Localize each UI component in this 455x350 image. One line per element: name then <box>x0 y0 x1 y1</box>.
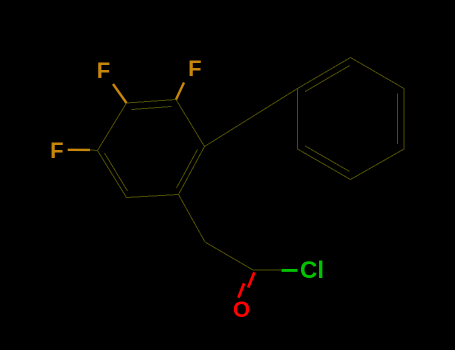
svg-text:Cl: Cl <box>300 257 324 284</box>
C=O double bond red <box>238 272 254 297</box>
F bond 2 <box>176 83 184 100</box>
svg-text:F: F <box>188 56 201 81</box>
F bond 1 <box>113 84 127 103</box>
svg-text:O: O <box>233 297 250 322</box>
C-Cl bond green half <box>282 269 298 272</box>
bond ring to CH2 <box>179 195 206 243</box>
svg-text:F: F <box>97 58 110 83</box>
aromatic inner bond top <box>132 107 172 110</box>
svg-text:F: F <box>50 138 63 163</box>
F bond 3 <box>68 149 90 151</box>
phenyl ring right <box>298 58 405 180</box>
aromatic inner bond lower-left <box>105 153 128 191</box>
C-Cl bond olive half <box>253 269 281 271</box>
long bond ring to phenyl <box>205 89 298 147</box>
aromatic inner bond right <box>177 150 198 189</box>
benzene ring (trifluorophenyl) <box>98 100 205 198</box>
F bond 3 olive part <box>90 149 98 152</box>
bond CH2 to carbonyl C <box>205 242 253 270</box>
